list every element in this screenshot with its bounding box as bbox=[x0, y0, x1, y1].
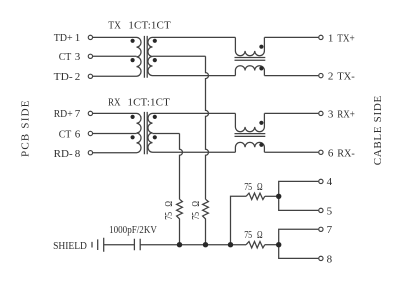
common mode choke L1 bottom winding bbox=[235, 66, 264, 76]
transformer T2 RX secondary winding bbox=[148, 113, 153, 152]
common mode choke L1 core bbox=[235, 58, 266, 61]
wire R3 to junction 4/5 bbox=[265, 195, 279, 197]
phase dot L1 top winding bbox=[259, 45, 263, 49]
wire CT pin6 to T2 primary tap bbox=[93, 133, 137, 135]
phase dot T1 secondary top bbox=[153, 39, 157, 43]
junction node TX tap on bus bbox=[203, 242, 208, 247]
svg-text:CT: CT bbox=[59, 51, 72, 63]
resistor R4 75ohm horizontal on bus bbox=[246, 242, 265, 248]
wire L2 to pin 6 RX- bbox=[264, 151, 318, 153]
svg-text:3: 3 bbox=[328, 108, 334, 120]
pin terminal CT 6 bbox=[88, 131, 92, 135]
common mode choke L1 top winding bbox=[235, 37, 264, 55]
value label R1 75 ohm rotated bbox=[163, 201, 175, 220]
wire junction to pin 7 bbox=[279, 229, 319, 244]
svg-text:RD+: RD+ bbox=[54, 108, 73, 120]
svg-text:1000pF/2KV: 1000pF/2KV bbox=[109, 224, 157, 236]
svg-text:RD-: RD- bbox=[54, 148, 73, 160]
common mode choke L2 bottom winding bbox=[235, 142, 264, 152]
svg-text:TD+: TD+ bbox=[54, 32, 73, 44]
svg-text:8: 8 bbox=[75, 148, 81, 160]
capacitor C1 1000pF/2KV plates bbox=[134, 239, 140, 251]
junction node pins 7/8 bbox=[276, 242, 281, 247]
junction node pins 4/5 bbox=[276, 194, 281, 199]
svg-text:Ω: Ω bbox=[190, 201, 202, 207]
svg-text:75: 75 bbox=[163, 212, 175, 220]
svg-text:6: 6 bbox=[328, 147, 334, 159]
phase dot L2 bottom winding bbox=[259, 143, 263, 147]
value label R2 75 ohm rotated bbox=[190, 201, 202, 220]
phase dot T2 primary top bbox=[131, 115, 135, 119]
wire TD+ pin1 to T1 primary top bbox=[93, 36, 137, 38]
phase dot T2 secondary lower bbox=[153, 135, 157, 139]
wire shield bus bbox=[140, 244, 246, 246]
wire T1 secondary top to L1 choke bbox=[153, 36, 236, 38]
svg-text:2: 2 bbox=[75, 71, 81, 83]
svg-text:6: 6 bbox=[75, 128, 81, 140]
svg-text:CT: CT bbox=[59, 128, 72, 140]
svg-text:4: 4 bbox=[327, 176, 333, 188]
phase dot T2 secondary top bbox=[153, 115, 157, 119]
phase dot L1 bottom winding bbox=[259, 66, 263, 70]
pin terminal RD- 8 bbox=[88, 151, 92, 155]
svg-text:Ω: Ω bbox=[257, 229, 263, 241]
transformer T1 TX secondary winding bbox=[148, 37, 153, 75]
svg-text:TD-: TD- bbox=[54, 71, 73, 83]
svg-text:3: 3 bbox=[75, 51, 81, 63]
svg-text:SHIELD: SHIELD bbox=[53, 240, 87, 252]
svg-text:TX: TX bbox=[108, 19, 121, 31]
svg-text:8: 8 bbox=[327, 253, 333, 265]
svg-text:75: 75 bbox=[244, 181, 252, 193]
svg-text:TX+: TX+ bbox=[337, 32, 355, 44]
wire shield to capacitor C1 bbox=[104, 244, 135, 246]
svg-text:2: 2 bbox=[328, 71, 334, 83]
phase dot T1 primary top bbox=[131, 39, 135, 43]
pin terminal TD+ 1 bbox=[88, 35, 92, 39]
svg-text:75: 75 bbox=[244, 229, 252, 241]
shield terminal bars bbox=[92, 238, 104, 252]
pin terminal 4 bbox=[319, 179, 323, 183]
pin terminal 5 bbox=[319, 208, 323, 212]
svg-text:Ω: Ω bbox=[257, 181, 263, 193]
pin terminal 1 TX+ bbox=[319, 35, 323, 39]
transformer T2 RX primary winding bbox=[137, 113, 142, 152]
svg-text:1CT:1CT: 1CT:1CT bbox=[128, 19, 171, 31]
wire junction to pin 8 bbox=[279, 245, 319, 259]
pin terminal 6 RX- bbox=[319, 150, 323, 154]
svg-text:1CT:1CT: 1CT:1CT bbox=[128, 96, 171, 108]
svg-text:CABLE SIDE: CABLE SIDE bbox=[372, 96, 384, 166]
svg-text:7: 7 bbox=[75, 108, 81, 120]
phase dot T1 primary lower bbox=[131, 58, 135, 62]
junction node RX tap on bus bbox=[177, 242, 182, 247]
wire bus to junction 7/8 bbox=[265, 244, 279, 246]
wire branch up from bus to R3 bbox=[231, 196, 247, 244]
svg-text:1: 1 bbox=[328, 32, 334, 44]
transformer T1 TX primary winding bbox=[137, 37, 142, 76]
wire L1 to pin 1 TX+ bbox=[264, 36, 318, 38]
svg-text:75: 75 bbox=[190, 212, 202, 220]
svg-text:1: 1 bbox=[75, 32, 81, 44]
svg-text:RX: RX bbox=[108, 96, 121, 108]
svg-text:7: 7 bbox=[327, 224, 333, 236]
phase dot L2 top winding bbox=[259, 121, 263, 125]
svg-text:RX+: RX+ bbox=[337, 108, 355, 120]
wire T2 secondary bottom to L2 choke bbox=[153, 151, 236, 153]
resistor R1 75ohm vertical bbox=[177, 199, 183, 245]
svg-text:PCB SIDE: PCB SIDE bbox=[20, 100, 32, 157]
transformer T2 core bbox=[144, 112, 147, 154]
wire CT pin3 to T1 primary tap bbox=[93, 55, 137, 57]
pin terminal 8 bbox=[319, 256, 323, 260]
common mode choke L2 core bbox=[235, 134, 266, 137]
wire T2 secondary center tap bbox=[153, 133, 180, 135]
wire RX tap vertical with hop bbox=[180, 134, 183, 200]
svg-text:5: 5 bbox=[327, 205, 333, 217]
wire TD- pin2 to T1 primary bottom bbox=[93, 75, 137, 77]
wire junction to pin 5 bbox=[279, 196, 319, 210]
wire T1 secondary center tap bbox=[153, 55, 206, 57]
wire L1 to pin 2 TX- bbox=[264, 75, 318, 77]
phase dot T1 secondary lower bbox=[153, 58, 157, 62]
resistor R2 75ohm vertical bbox=[203, 199, 209, 245]
phase dot T2 primary lower bbox=[131, 135, 135, 139]
wire junction to pin 4 bbox=[279, 181, 319, 196]
wire T2 secondary top to L2 choke bbox=[153, 112, 236, 114]
pin terminal 2 TX- bbox=[319, 73, 323, 77]
wire TX tap vertical with hops bbox=[206, 56, 209, 199]
wire L2 to pin 3 RX+ bbox=[264, 112, 318, 114]
junction node R3 branch on bus bbox=[228, 242, 233, 247]
pin terminal TD- 2 bbox=[88, 74, 92, 78]
svg-text:RX-: RX- bbox=[337, 147, 355, 159]
pin terminal RD+ 7 bbox=[88, 111, 92, 115]
wire RD+ pin7 to T2 primary top bbox=[93, 112, 137, 114]
common mode choke L2 top winding bbox=[235, 113, 264, 131]
pin terminal 3 RX+ bbox=[319, 111, 323, 115]
svg-text:TX-: TX- bbox=[337, 71, 355, 83]
wire RD- pin8 to T2 primary bottom bbox=[93, 152, 137, 154]
transformer T1 core bbox=[144, 36, 147, 78]
svg-text:Ω: Ω bbox=[163, 201, 175, 207]
pin terminal 7 bbox=[319, 227, 323, 231]
resistor R3 75ohm horizontal bbox=[246, 193, 265, 199]
pin terminal CT 3 bbox=[88, 54, 92, 58]
wire T1 secondary bottom to L1 choke bbox=[153, 75, 236, 77]
